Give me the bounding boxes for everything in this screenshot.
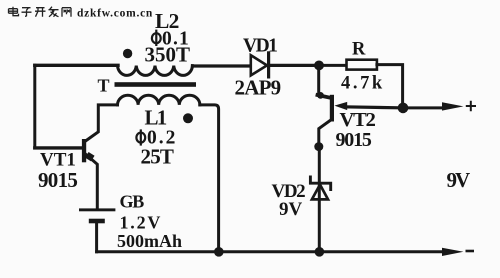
wire L2 to diode VD1	[193, 64, 251, 67]
svg-text:VD1: VD1	[243, 35, 277, 56]
transistor VT2 base bar	[330, 95, 334, 122]
battery GB negative plate	[89, 219, 105, 224]
arrowhead - output	[442, 248, 464, 256]
junction blob VT2 base bend	[317, 92, 324, 99]
svg-text:500mAh: 500mAh	[117, 231, 182, 251]
wire battery to bottom rail	[95, 223, 98, 252]
node A junction dot	[314, 61, 324, 71]
inductor L1 winding	[118, 95, 200, 105]
polarity dot L1	[183, 113, 193, 123]
zener diode VD2 cathode bar	[310, 177, 330, 190]
wire VD1 to node A	[269, 64, 316, 67]
svg-text:GB: GB	[120, 192, 145, 212]
resistor R	[347, 60, 377, 70]
wire node B to + output	[403, 106, 444, 109]
wire L1 right lead	[200, 105, 219, 250]
diode VD1 anode triangle	[251, 55, 267, 75]
label - terminal	[466, 250, 475, 253]
transistor VT2 emitter	[344, 107, 399, 108]
svg-text:dzkfw.com.cn: dzkfw.com.cn	[77, 7, 153, 19]
node B junction dot	[398, 103, 409, 114]
wire VT2 collector to VD2	[318, 147, 321, 250]
svg-text:L1: L1	[145, 106, 167, 130]
svg-text:9V: 9V	[447, 168, 471, 192]
polarity dot L2	[123, 49, 132, 58]
wire top-left rail	[33, 65, 36, 148]
node D junction dot bottom of VD2	[315, 247, 325, 257]
wire R to + rail	[377, 65, 403, 104]
diode VD1 cathode bar	[267, 53, 270, 77]
node C junction dot	[314, 142, 323, 151]
label L2 wire gauge	[152, 30, 161, 46]
svg-text:25T: 25T	[141, 144, 174, 168]
wire top (left segment to L2)	[35, 64, 118, 67]
svg-text:T: T	[98, 76, 110, 96]
svg-text:1.2V: 1.2V	[120, 213, 163, 233]
zener diode VD2 anode triangle	[312, 185, 328, 200]
svg-text:2AP9: 2AP9	[235, 76, 281, 100]
label + terminal	[466, 101, 476, 111]
svg-text:VT2: VT2	[340, 109, 376, 131]
transistor VT1 emitter	[86, 155, 97, 209]
svg-text:9015: 9015	[336, 129, 372, 151]
wire node A down to VT2 base	[317, 65, 320, 95]
wire bottom rail	[97, 250, 444, 253]
svg-text:4.7k: 4.7k	[341, 74, 385, 94]
node E junction dot bottom of L1 return	[214, 247, 224, 257]
transformer T core	[115, 82, 197, 87]
svg-text:R: R	[352, 39, 366, 59]
arrowhead + output	[442, 102, 464, 110]
label L1 wire gauge	[136, 129, 145, 145]
svg-text:350T: 350T	[145, 43, 191, 67]
battery GB positive plate	[79, 208, 115, 211]
watermark 电子开发网	[9, 7, 72, 17]
transistor VT2 collector	[319, 120, 332, 145]
wire node A to resistor R	[319, 64, 346, 67]
wire L1 left lead to VT1 collector	[86, 105, 117, 141]
svg-text:9015: 9015	[38, 168, 77, 192]
svg-text:9V: 9V	[279, 199, 303, 220]
transistor VT1 base bar	[82, 139, 86, 162]
inductor L2 winding	[118, 66, 193, 76]
wire VT1 base	[35, 146, 82, 149]
